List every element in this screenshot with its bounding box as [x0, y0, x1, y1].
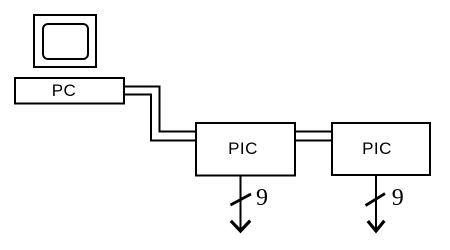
- bus arrow from PIC1 head: [231, 221, 250, 231]
- PIC U2 box: [332, 123, 430, 175]
- PIC U1 box: [196, 123, 295, 176]
- svg-text:PC: PC: [52, 81, 77, 100]
- PC monitor screen: [43, 24, 88, 59]
- wire PIC1 to PIC2 lower: [294, 140, 332, 142]
- bus width slash 2: [366, 194, 386, 206]
- svg-text:PIC: PIC: [362, 139, 392, 158]
- PC monitor outer frame: [34, 15, 96, 67]
- svg-text:PIC: PIC: [228, 139, 258, 158]
- svg-text:9: 9: [392, 185, 404, 211]
- bus arrow from PIC1 shaft: [240, 176, 242, 230]
- bus arrow from PIC2 head: [368, 221, 385, 231]
- PC system unit box: [15, 78, 124, 104]
- svg-text:9: 9: [256, 185, 268, 211]
- bus width slash 1: [231, 194, 252, 205]
- bus arrow from PIC2 shaft: [375, 176, 377, 230]
- wire PC to PIC1 upper: [125, 87, 196, 132]
- wire PC to PIC1 lower: [125, 95, 196, 141]
- wire PIC1 to PIC2 upper: [294, 131, 332, 133]
